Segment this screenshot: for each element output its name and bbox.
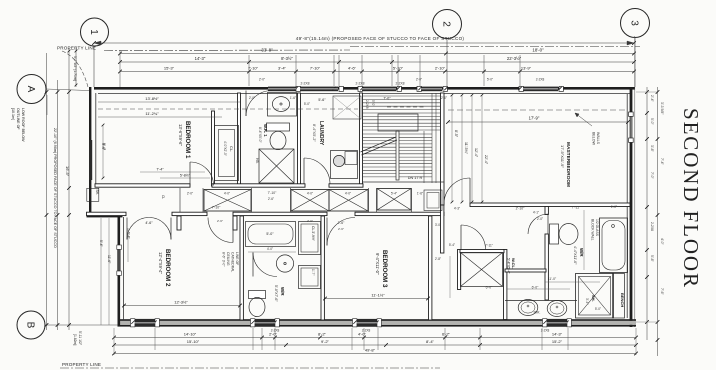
- svg-text:[1.82m]: [1.82m]: [73, 334, 77, 345]
- svg-text:2-2X8: 2-2X8: [365, 100, 369, 109]
- svg-text:2'-0": 2'-0": [187, 192, 193, 196]
- svg-text:7'-4": 7'-4": [156, 168, 164, 172]
- svg-text:MIR.: MIR.: [534, 311, 541, 315]
- svg-text:11'-2¾": 11'-2¾": [145, 111, 159, 116]
- svg-text:W/R: W/R: [280, 287, 285, 296]
- svg-text:16'-5": 16'-5": [65, 166, 70, 177]
- svg-text:2'-6": 2'-6": [217, 219, 223, 223]
- svg-text:2'-6": 2'-6": [338, 227, 344, 231]
- svg-text:17'-9": 17'-9": [529, 116, 540, 121]
- svg-text:8'-4"X5'-0": 8'-4"X5'-0": [258, 127, 262, 144]
- svg-text:7'-6": 7'-6": [660, 288, 664, 296]
- svg-text:1'-6": 1'-6": [417, 192, 423, 196]
- svg-text:7'-4": 7'-4": [660, 158, 664, 166]
- svg-text:13'-6"X9'-6": 13'-6"X9'-6": [178, 124, 183, 146]
- svg-text:4'-0"X2'-0": 4'-0"X2'-0": [223, 141, 227, 156]
- svg-text:3: 3: [629, 20, 640, 26]
- svg-text:22'-10" (6.96m) PROPOSED FACE: 22'-10" (6.96m) PROPOSED FACE OF STUCCO …: [53, 128, 57, 248]
- svg-text:5'-8½": 5'-8½": [180, 174, 191, 178]
- svg-text:6'-0": 6'-0": [486, 286, 494, 290]
- svg-text:5'-10": 5'-10": [393, 65, 404, 70]
- svg-text:LAUNDRY: LAUNDRY: [318, 121, 324, 146]
- svg-text:1/2 GLASS: 1/2 GLASS: [595, 219, 599, 237]
- svg-text:7'-10": 7'-10": [268, 191, 277, 195]
- svg-text:BLOCK WALL: BLOCK WALL: [591, 219, 595, 241]
- svg-text:BEDROOM 3: BEDROOM 3: [381, 250, 388, 288]
- svg-text:4'-1": 4'-1": [533, 211, 539, 215]
- svg-text:33'-8": 33'-8": [261, 48, 273, 53]
- svg-text:2-2X8: 2-2X8: [536, 78, 545, 82]
- svg-text:8'-2": 8'-2": [318, 331, 327, 336]
- svg-text:4'-6": 4'-6": [348, 65, 357, 70]
- svg-text:1: 1: [88, 29, 99, 35]
- svg-text:PROPERTY LINE: PROPERTY LINE: [57, 46, 96, 51]
- svg-text:17'-9"X11'-9": 17'-9"X11'-9": [560, 145, 565, 168]
- svg-text:SH.: SH.: [591, 295, 596, 302]
- svg-text:8'-6" 3'-0": 8'-6" 3'-0": [222, 252, 226, 267]
- svg-text:SECOND FLOOR: SECOND FLOOR: [679, 108, 703, 289]
- svg-text:2-2X8: 2-2X8: [395, 82, 404, 86]
- svg-text:BELOW: BELOW: [592, 132, 596, 146]
- svg-text:B: B: [25, 322, 36, 329]
- svg-text:13'-9": 13'-9": [521, 65, 532, 70]
- svg-text:5'-0": 5'-0": [304, 102, 310, 106]
- svg-text:2'-0": 2'-0": [416, 78, 422, 82]
- svg-text:15'-2": 15'-2": [552, 339, 563, 344]
- svg-text:5'-11 1/2": 5'-11 1/2": [78, 331, 82, 346]
- svg-text:5'-0": 5'-0": [371, 100, 375, 106]
- svg-text:5'-0"X7'-6": 5'-0"X7'-6": [274, 285, 278, 302]
- svg-text:BEDROOM 2: BEDROOM 2: [164, 249, 171, 287]
- svg-text:1'-6": 1'-6": [290, 96, 296, 100]
- svg-text:CL: CL: [161, 195, 165, 199]
- svg-text:SH.: SH.: [95, 190, 99, 195]
- svg-text:5'-6": 5'-6": [318, 98, 326, 102]
- svg-text:8'-5": 8'-5": [454, 130, 458, 138]
- svg-text:2'-10": 2'-10": [435, 65, 446, 70]
- svg-text:DN 17 R: DN 17 R: [408, 176, 423, 180]
- svg-text:22'-4": 22'-4": [484, 155, 488, 165]
- svg-text:OUTLINE OF: OUTLINE OF: [16, 108, 20, 130]
- svg-text:5'-4": 5'-4": [127, 232, 131, 240]
- svg-text:6'-0": 6'-0": [532, 286, 540, 290]
- svg-text:4'-0": 4'-0": [345, 192, 351, 196]
- svg-text:14'-3": 14'-3": [195, 56, 206, 61]
- svg-text:CEILING: CEILING: [226, 252, 230, 266]
- svg-text:CATHEDRAL: CATHEDRAL: [231, 252, 235, 272]
- svg-text:5'-0": 5'-0": [487, 78, 493, 82]
- svg-text:22'-3½": 22'-3½": [507, 56, 522, 61]
- svg-text:W/R: W/R: [579, 248, 584, 257]
- svg-text:CL.3'-9½": CL.3'-9½": [311, 226, 315, 242]
- svg-text:5'-0": 5'-0": [266, 232, 274, 236]
- svg-text:5'-8": 5'-8": [650, 255, 654, 263]
- svg-text:LOW ROOF BELOW: LOW ROOF BELOW: [21, 108, 25, 142]
- svg-text:14'-10": 14'-10": [184, 331, 197, 336]
- svg-text:5'-4": 5'-4": [99, 240, 103, 248]
- svg-text:2: 2: [441, 21, 452, 27]
- svg-text:2'-10": 2'-10": [516, 207, 525, 211]
- svg-text:5'-0": 5'-0": [650, 118, 654, 126]
- svg-text:12'-4"X9'-4": 12'-4"X9'-4": [158, 252, 163, 274]
- svg-text:8'-3½": 8'-3½": [281, 56, 293, 61]
- svg-text:W.R. 1: W.R. 1: [263, 124, 268, 137]
- svg-text:9'-2": 9'-2": [321, 339, 330, 344]
- svg-text:11'-0": 11'-0": [548, 277, 557, 281]
- svg-text:2'-8": 2'-8": [435, 257, 441, 261]
- svg-text:2'-6": 2'-6": [268, 197, 274, 201]
- svg-text:11'-5¾": 11'-5¾": [464, 142, 468, 155]
- svg-text:11'-1½": 11'-1½": [371, 292, 385, 297]
- svg-text:4'-6": 4'-6": [145, 221, 153, 225]
- svg-text:2'-6": 2'-6": [338, 221, 346, 225]
- svg-text:5'-4": 5'-4": [449, 243, 455, 247]
- svg-text:HB.: HB.: [255, 158, 259, 164]
- svg-text:7'-0": 7'-0": [650, 172, 654, 180]
- svg-text:9'-4": 9'-4": [101, 143, 105, 151]
- svg-text:BEDROOM 1: BEDROOM 1: [184, 121, 191, 159]
- svg-text:4'-0": 4'-0": [224, 192, 230, 196]
- svg-text:5'-7 1/2" [1.71m]: 5'-7 1/2" [1.71m]: [73, 56, 77, 81]
- svg-text:2'-6": 2'-6": [307, 219, 313, 223]
- svg-text:9'-4"X11'-0": 9'-4"X11'-0": [375, 253, 380, 275]
- svg-text:12'-3½": 12'-3½": [174, 299, 188, 304]
- svg-text:LINE OF: LINE OF: [235, 252, 239, 265]
- svg-text:7'-0": 7'-0": [383, 97, 391, 101]
- svg-text:4'-3": 4'-3": [454, 207, 460, 211]
- svg-text:5'-4": 5'-4": [391, 192, 397, 196]
- svg-text:3'-4": 3'-4": [278, 65, 287, 70]
- svg-text:15'-3": 15'-3": [164, 65, 175, 70]
- svg-text:7'-11": 7'-11": [485, 244, 493, 248]
- svg-text:1'-0": 1'-0": [611, 205, 617, 209]
- svg-text:4'-4"X11'-0": 4'-4"X11'-0": [573, 246, 577, 265]
- svg-text:3'-8": 3'-8": [650, 145, 654, 153]
- svg-text:2-2X8: 2-2X8: [362, 329, 371, 333]
- svg-text:W.CL.: W.CL.: [511, 258, 516, 269]
- svg-text:4'-0": 4'-0": [307, 192, 313, 196]
- svg-text:WALLS: WALLS: [596, 132, 600, 145]
- svg-text:49'-8": 49'-8": [365, 347, 376, 352]
- svg-text:3'-3 5/8": 3'-3 5/8": [660, 102, 664, 115]
- svg-text:4'-0": 4'-0": [660, 238, 664, 246]
- svg-text:2'-4": 2'-4": [650, 95, 654, 103]
- svg-text:3'-0": 3'-0": [435, 223, 441, 227]
- svg-text:15'-10": 15'-10": [187, 339, 200, 344]
- svg-text:2'-0": 2'-0": [249, 96, 255, 100]
- svg-text:7'-11": 7'-11": [572, 206, 581, 210]
- svg-text:PROPERTY LINE: PROPERTY LINE: [62, 362, 101, 367]
- svg-text:18'-0": 18'-0": [532, 48, 544, 53]
- svg-text:2'-0": 2'-0": [259, 78, 265, 82]
- svg-text:6'-2": 6'-2": [442, 331, 451, 336]
- svg-text:14'-3": 14'-3": [552, 331, 563, 336]
- svg-text:7'-10": 7'-10": [310, 65, 321, 70]
- svg-text:8'-4"X5'-2": 8'-4"X5'-2": [312, 124, 316, 142]
- svg-text:8'-4": 8'-4": [426, 339, 435, 344]
- svg-text:7'-10": 7'-10": [212, 206, 221, 210]
- svg-text:[10.1m]: [10.1m]: [11, 108, 15, 120]
- svg-text:4'-0": 4'-0": [267, 247, 273, 251]
- svg-text:A: A: [25, 86, 36, 93]
- svg-text:2-2X8: 2-2X8: [650, 222, 654, 231]
- svg-text:12'-4": 12'-4": [474, 148, 478, 158]
- svg-text:11'-6": 11'-6": [107, 255, 111, 264]
- svg-text:49'-8"(15.14m) (PROPOSED FACE: 49'-8"(15.14m) (PROPOSED FACE OF STUCCO …: [296, 36, 465, 41]
- svg-text:5'-0": 5'-0": [595, 307, 601, 311]
- svg-text:2-2X8: 2-2X8: [300, 82, 309, 86]
- svg-text:CL.: CL.: [229, 146, 234, 152]
- svg-text:BENCH: BENCH: [620, 293, 625, 307]
- svg-text:13'-8½": 13'-8½": [145, 96, 159, 101]
- svg-text:2-2X8: 2-2X8: [355, 82, 364, 86]
- svg-text:5'-4"X5'-4": 5'-4"X5'-4": [507, 258, 511, 275]
- svg-text:1'-7": 1'-7": [311, 269, 315, 275]
- svg-text:2'-0": 2'-0": [537, 217, 543, 221]
- svg-text:7'-10": 7'-10": [248, 65, 259, 70]
- svg-text:2'-0": 2'-0": [441, 96, 447, 100]
- svg-text:3'-4": 3'-4": [585, 298, 589, 304]
